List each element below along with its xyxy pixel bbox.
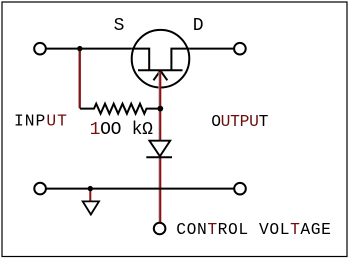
svg-text:D: D xyxy=(193,16,204,36)
svg-text:INPUT: INPUT xyxy=(14,111,68,130)
svg-text:S: S xyxy=(114,16,125,36)
svg-text:1OO kΩ: 1OO kΩ xyxy=(90,120,154,140)
svg-text:CONTROL VOLTAGE: CONTROL VOLTAGE xyxy=(176,220,331,239)
svg-text:OUTPUT: OUTPUT xyxy=(211,112,268,131)
